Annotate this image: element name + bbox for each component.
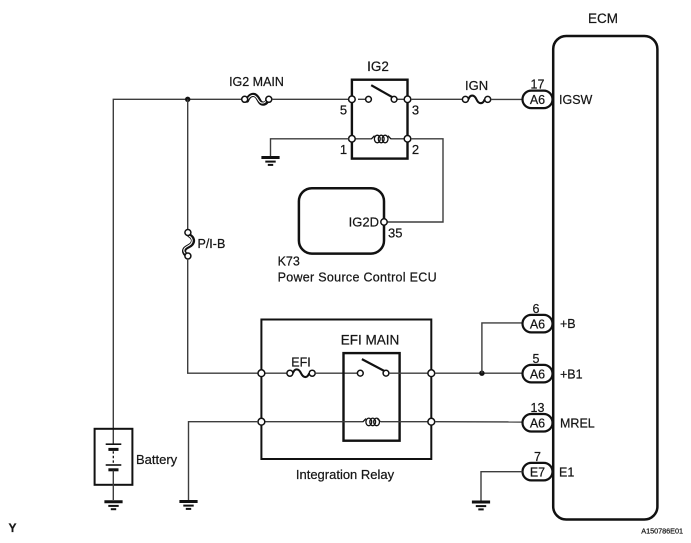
svg-text:A150786E01: A150786E01 — [641, 527, 683, 536]
wire: P/I-B branch (junction down to fusible link) — [187, 99, 189, 229]
wire: relay pin 1 to ground — [271, 139, 349, 157]
relay IG2 pin 2 — [404, 136, 419, 158]
connector A6 pin 17 (IGSW) — [523, 78, 553, 109]
connector E7 pin 7 (E1) — [523, 450, 553, 481]
figure number A150786E01 — [641, 527, 683, 536]
svg-text:6: 6 — [533, 302, 540, 316]
terminal: Integration Relay bottom-left — [258, 418, 265, 425]
svg-text:5: 5 — [340, 103, 347, 118]
connector A6 pin 13 (MREL) — [523, 401, 553, 432]
wire: Integration Relay bottom-left terminal to ground — [189, 422, 259, 500]
svg-text:A6: A6 — [530, 368, 545, 382]
battery — [95, 429, 178, 500]
wire: IGN fuse to ECM connector A6-17 — [491, 98, 523, 100]
net label +B1 — [560, 368, 583, 382]
relay IG2 pin 5 — [340, 96, 355, 118]
wire: E7-7 to ground — [481, 472, 523, 501]
svg-text:Y: Y — [9, 521, 17, 535]
net label IGSW — [559, 93, 593, 107]
relay IG2 pin 3 — [404, 96, 419, 118]
svg-text:EFI: EFI — [291, 356, 310, 370]
ground (integration relay coil) — [179, 502, 197, 509]
svg-text:IGN: IGN — [465, 78, 488, 93]
net label E1 — [559, 466, 574, 480]
connector A6 pin 5 (+B1) — [523, 352, 553, 383]
connector A6 pin 6 (+B) — [523, 302, 553, 333]
ground (ECM E1) — [472, 502, 490, 509]
svg-text:IGSW: IGSW — [559, 93, 593, 107]
pin IG2D / 35 of K73 — [349, 215, 403, 241]
ECM box — [553, 11, 657, 520]
svg-text:K73: K73 — [278, 255, 300, 269]
net label +B — [560, 317, 576, 331]
terminal: Integration Relay top-right — [428, 370, 435, 377]
svg-text:IG2D: IG2D — [349, 215, 379, 230]
svg-text:2: 2 — [412, 142, 419, 157]
wire: Integration Relay top-right terminal to A6-5 (+B1) — [435, 372, 523, 374]
wire: relay pin 3 to IGN fuse — [411, 98, 463, 100]
fusible link P/I-B — [184, 230, 225, 260]
relay IG2 box — [352, 59, 408, 159]
svg-text:IG2: IG2 — [367, 59, 389, 74]
svg-text:IG2 MAIN: IG2 MAIN — [229, 75, 284, 89]
wire: top rail inside Integration Relay (terminal to EFI fuse) — [261, 372, 287, 374]
node: junction of battery feed and P/I-B branch — [185, 97, 190, 102]
svg-text:E7: E7 — [530, 466, 545, 480]
svg-text:Integration Relay: Integration Relay — [296, 467, 395, 482]
wire: branch up to A6-6 (+B) — [482, 323, 523, 373]
wire: battery positive feed (left vertical + top horizontal to IG2 MAIN fuse) — [113, 99, 242, 443]
svg-text:1: 1 — [340, 142, 347, 157]
svg-text:MREL: MREL — [560, 417, 595, 431]
terminal: Integration Relay top-left — [258, 370, 265, 377]
relay IG2 pin 1 — [340, 136, 355, 158]
svg-text:A6: A6 — [530, 93, 545, 107]
svg-text:35: 35 — [388, 226, 402, 241]
svg-text:E1: E1 — [559, 466, 574, 480]
node: junction on +B1 wire — [479, 371, 484, 376]
svg-text:3: 3 — [412, 103, 419, 118]
svg-text:P/I-B: P/I-B — [198, 237, 226, 251]
relay IG2 switch — [358, 85, 405, 102]
page marker Y — [9, 521, 17, 535]
fusible link IG2 MAIN — [229, 75, 284, 104]
wire: relay pin 2 to IG2D terminal — [388, 139, 444, 222]
relay EFI MAIN box — [341, 333, 400, 441]
wire: IG2 MAIN fuse to relay pin 5 — [272, 98, 352, 100]
relay EFI MAIN coil — [261, 418, 431, 426]
box K73 Power Source Control ECU — [278, 188, 437, 284]
svg-text:+B1: +B1 — [560, 368, 583, 382]
svg-text:+B: +B — [560, 317, 576, 331]
relay EFI MAIN switch — [357, 359, 389, 376]
svg-text:7: 7 — [534, 450, 541, 464]
svg-text:ECM: ECM — [588, 11, 618, 26]
fuse IGN — [462, 78, 490, 103]
Integration Relay outer box — [261, 320, 431, 483]
wire: P/I-B to Integration Relay top-left terminal — [188, 259, 262, 373]
svg-text:5: 5 — [533, 352, 540, 366]
svg-text:A6: A6 — [530, 318, 545, 332]
ground (battery) — [104, 502, 122, 509]
svg-text:Battery: Battery — [136, 452, 178, 467]
relay IG2 coil — [354, 135, 406, 143]
svg-text:Power Source Control ECU: Power Source Control ECU — [278, 271, 437, 285]
svg-text:A6: A6 — [530, 417, 545, 431]
svg-text:17: 17 — [531, 78, 545, 92]
net label MREL — [560, 417, 595, 431]
svg-text:13: 13 — [531, 401, 545, 415]
fuse EFI — [287, 356, 315, 378]
wire: EFI fuse to EFI MAIN switch — [315, 372, 357, 374]
ground (IG2 relay coil) — [261, 158, 279, 165]
wire: EFI MAIN switch to right terminal — [389, 372, 431, 374]
svg-text:EFI MAIN: EFI MAIN — [341, 333, 400, 348]
wire: Integration Relay bottom-right terminal to A6-13 (MREL) — [435, 421, 523, 423]
terminal: Integration Relay bottom-right — [428, 418, 435, 425]
